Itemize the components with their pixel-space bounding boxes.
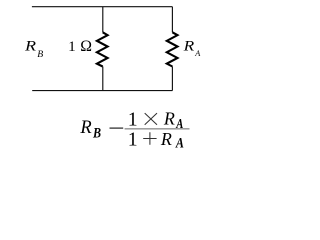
svg-text:1: 1 bbox=[128, 128, 138, 150]
label R_A (value of R2) bbox=[183, 39, 202, 58]
svg-text:A: A bbox=[175, 115, 183, 131]
resistor R1 zigzag body bbox=[97, 32, 108, 66]
wire bottom rail bbox=[32, 90, 172, 92]
formula fraction bar bbox=[125, 128, 190, 130]
resistor R2 (R_A, right branch) bbox=[167, 7, 178, 91]
formula minus sign bbox=[110, 127, 124, 129]
svg-text:R: R bbox=[160, 129, 172, 149]
svg-text:R: R bbox=[24, 37, 36, 54]
svg-text:1: 1 bbox=[128, 108, 138, 130]
formula R_B - (1 x R_A)/(1 + R_A) bbox=[79, 108, 189, 150]
svg-text:R: R bbox=[163, 109, 175, 129]
wire top rail bbox=[32, 6, 173, 8]
svg-text:B: B bbox=[37, 49, 43, 60]
wire: R1 top lead bbox=[102, 7, 104, 33]
svg-text:A: A bbox=[175, 134, 184, 150]
svg-text:B: B bbox=[92, 125, 101, 141]
label 1 ohm (value of R1) bbox=[68, 38, 92, 55]
svg-text:1: 1 bbox=[68, 38, 76, 55]
formula denominator: plus sign bbox=[143, 132, 156, 144]
resistor R1 value 1 ohm (middle branch) bbox=[97, 7, 108, 91]
svg-text:R: R bbox=[183, 39, 195, 54]
resistor R2 zigzag body bbox=[167, 32, 178, 66]
wire: R2 top lead bbox=[171, 7, 173, 33]
svg-text:A: A bbox=[194, 49, 201, 58]
wire: R2 bottom lead bbox=[171, 67, 173, 91]
wire: R1 bottom lead bbox=[102, 67, 104, 91]
svg-text:R: R bbox=[79, 118, 91, 138]
formula numerator: times sign bbox=[145, 113, 157, 125]
label R_B (equivalent resistance at left port) bbox=[24, 37, 43, 60]
svg-text:Ω: Ω bbox=[80, 38, 92, 55]
